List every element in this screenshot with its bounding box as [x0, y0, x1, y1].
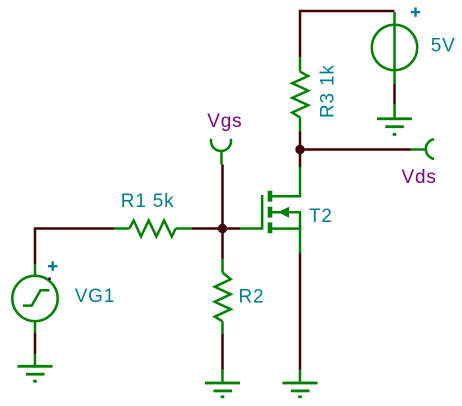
voltage generator VG1 [12, 264, 57, 333]
wire gate node down to R2 [221, 229, 224, 259]
wire R3 bottom to drain node [299, 132, 302, 152]
svg-text:R1 5k: R1 5k [121, 191, 175, 212]
wire R1 to gate node [192, 227, 223, 230]
resistor R2 [215, 259, 231, 335]
wire 5V source bottom to ground [393, 84, 396, 104]
svg-text:R2: R2 [239, 286, 265, 307]
resistor R3 [292, 57, 308, 132]
svg-text:Vgs: Vgs [207, 111, 242, 132]
transistor T2 (NMOS) [240, 167, 301, 254]
label + polarity mark of 5V source [411, 7, 420, 16]
polarity mark of VG1 [48, 261, 57, 270]
resistor R1 [114, 220, 192, 236]
wire R2 bottom to ground [221, 334, 224, 370]
node drain junction [295, 145, 304, 154]
ground for VG1 [18, 354, 53, 383]
wire gate node to T2 gate [223, 227, 241, 230]
ground for R2 [205, 370, 240, 399]
terminal Vds (open arc) [411, 139, 434, 159]
wire drain node down to T2 drain [299, 150, 302, 168]
svg-text:Vds: Vds [402, 167, 437, 188]
svg-text:R3 1k: R3 1k [318, 64, 339, 118]
wire drain node to Vds terminal [300, 148, 411, 151]
ground for 5V source [377, 104, 412, 136]
wire VG1 to R1 [35, 229, 114, 265]
wire T2 source to ground [299, 254, 302, 370]
ground for T2 source [283, 370, 318, 399]
svg-text:5V: 5V [431, 35, 456, 56]
wire VG1 bottom to ground [34, 333, 37, 354]
terminal Vgs (open arc) [211, 139, 231, 165]
node gate junction [218, 224, 227, 233]
svg-text:VG1: VG1 [75, 286, 115, 307]
wire gate node up to Vgs terminal [221, 165, 224, 229]
wire top rail from R3 top to 5V source [300, 11, 395, 57]
svg-text:T2: T2 [309, 206, 333, 227]
voltage source V1 (5V battery) [372, 12, 417, 84]
